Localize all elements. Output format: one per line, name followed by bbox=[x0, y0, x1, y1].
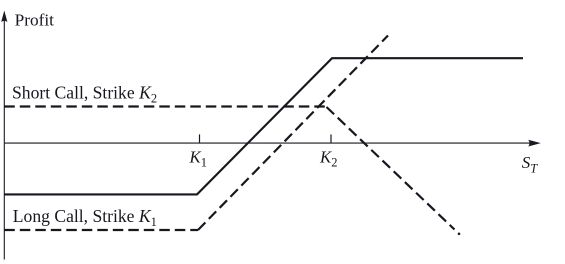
short call dashed: declining part bbox=[327, 107, 455, 230]
tick K1 bbox=[199, 134, 201, 143]
y-axis arrowhead bbox=[1, 11, 7, 23]
y-axis (Profit axis) bbox=[3, 20, 5, 260]
x-axis arrowhead bbox=[528, 140, 541, 147]
solid bull-spread payoff line bbox=[4, 58, 523, 194]
x-axis (S_T axis) bbox=[4, 142, 529, 144]
short call trailing dot bbox=[458, 233, 461, 236]
short call dashed: horizontal part bbox=[4, 105, 326, 107]
svg-text:Short Call, Strike K2: Short Call, Strike K2 bbox=[12, 83, 157, 106]
svg-text:Profit: Profit bbox=[15, 11, 55, 30]
long call dashed: rising part bbox=[198, 36, 388, 231]
svg-text:Long Call, Strike K1: Long Call, Strike K1 bbox=[13, 206, 157, 229]
tick K2 bbox=[330, 134, 332, 143]
long call dashed: horizontal part bbox=[4, 229, 198, 231]
